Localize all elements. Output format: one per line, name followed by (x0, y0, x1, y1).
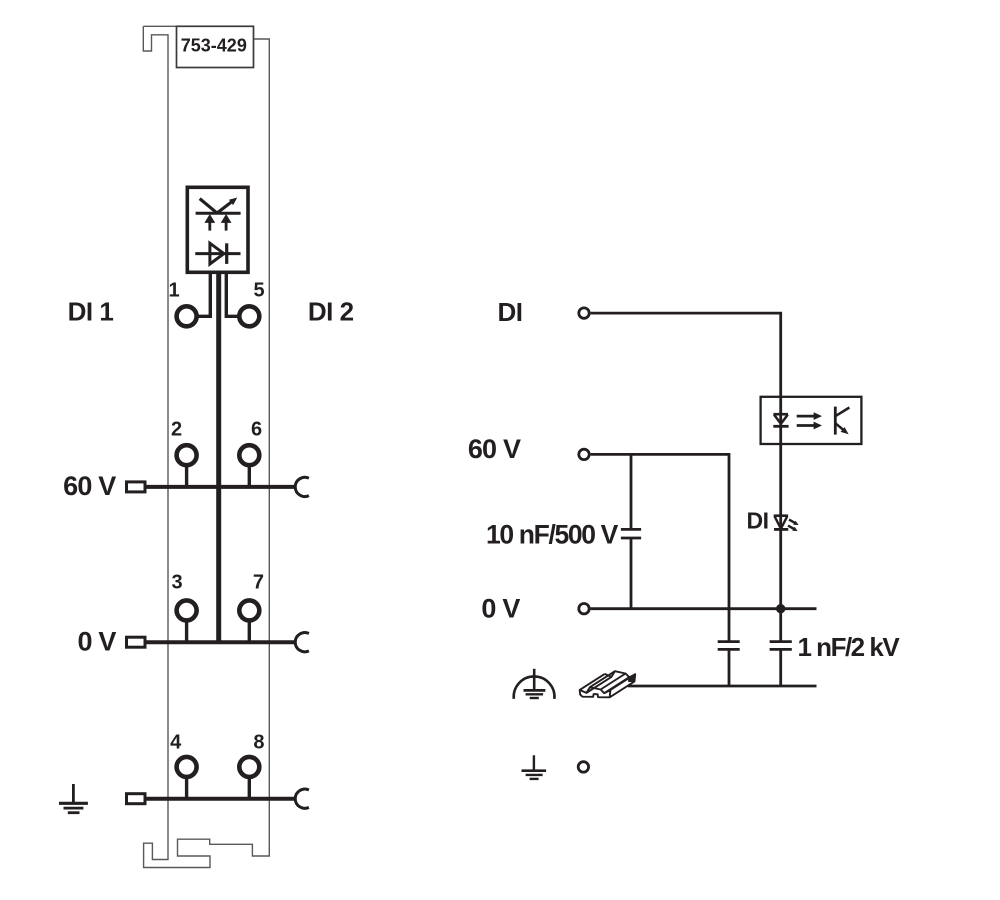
junction dot 0V/LED (776, 604, 785, 613)
optocoupler light arrows (797, 412, 822, 429)
node 0V terminal (579, 604, 589, 614)
wire terminal 8 stem (248, 776, 251, 799)
hook PE row (295, 789, 309, 808)
wire terminal 4 stem (185, 776, 188, 799)
status symbol up arrow 2 (221, 214, 232, 231)
terminal 3 (177, 600, 197, 620)
DIN rail symbol (580, 671, 636, 697)
wire box to terminal 5 (226, 272, 238, 316)
svg-text:60 V: 60 V (63, 471, 116, 501)
ground small right (522, 755, 547, 779)
hook 0V (295, 633, 309, 652)
svg-text:1 nF/2 kV: 1 nF/2 kV (798, 632, 901, 662)
svg-text:7: 7 (253, 572, 264, 594)
node unconnected terminal (578, 762, 588, 772)
ground left module (59, 784, 88, 813)
diode D1 (195, 243, 240, 264)
svg-text:8: 8 (253, 731, 264, 753)
optocoupler U2 (761, 397, 862, 444)
LED DI (774, 516, 789, 530)
svg-text:6: 6 (251, 419, 262, 441)
svg-text:DI 2: DI 2 (308, 297, 354, 327)
bus 60V (147, 485, 296, 489)
optocoupler phototransistor (835, 407, 849, 435)
svg-text:DI: DI (747, 508, 769, 534)
status symbol up arrow 1 (204, 214, 215, 231)
module outline (143, 26, 269, 867)
node 60V terminal (579, 449, 589, 459)
terminal 8 (239, 757, 259, 777)
svg-text:DI 1: DI 1 (68, 297, 114, 327)
hook 60V (295, 477, 309, 496)
svg-text:1: 1 (168, 280, 179, 302)
connector 0V (127, 637, 146, 647)
connector PE row (127, 794, 146, 804)
capacitor C3 (770, 642, 792, 650)
wire C3 to earth rail (779, 649, 782, 686)
LED DI light arrows (788, 520, 799, 531)
svg-text:10 nF/500 V: 10 nF/500 V (486, 519, 619, 549)
bus PE row (147, 797, 296, 801)
optocoupler LED (773, 414, 788, 426)
terminal 4 (177, 757, 197, 777)
terminal 1 (177, 306, 197, 326)
wire 60V branch to capacitor C1 (630, 454, 633, 529)
wire earth rail (628, 685, 817, 688)
wire center bus to 0V (216, 272, 221, 642)
capacitor C1 (621, 529, 641, 538)
bus 0V (147, 640, 296, 644)
terminal 6 (239, 445, 259, 465)
terminal 5 (239, 306, 259, 326)
svg-text:2: 2 (171, 419, 182, 441)
status indicator box U1 (187, 187, 248, 272)
svg-text:3: 3 (171, 572, 182, 594)
wire DI to optocoupler and LED branch (591, 313, 781, 641)
wire 60V to capacitor C2 (591, 454, 729, 641)
status symbol reflection line (196, 198, 241, 214)
svg-text:DI: DI (498, 297, 523, 327)
noiseless earth symbol (514, 669, 555, 699)
wire C1 to 0V (630, 538, 633, 609)
svg-text:753-429: 753-429 (181, 36, 247, 56)
node DI terminal (579, 308, 589, 318)
terminal 7 (239, 600, 259, 620)
connector 60V (127, 482, 146, 492)
wire C2 to earth rail (728, 649, 731, 686)
svg-text:60 V: 60 V (468, 434, 521, 464)
wire terminal 2 stem (185, 464, 188, 487)
svg-text:0 V: 0 V (78, 626, 117, 656)
wire terminal 7 stem (248, 619, 251, 642)
wire terminal 6 stem (248, 464, 251, 487)
svg-text:0 V: 0 V (481, 594, 520, 624)
wire box to terminal 1 (197, 272, 210, 316)
terminal 2 (177, 445, 197, 465)
svg-text:5: 5 (253, 280, 264, 302)
capacitor C2 (718, 642, 740, 650)
wire terminal 3 stem (185, 619, 188, 642)
label box 753-429 (177, 26, 254, 67)
wire 0V rail (591, 607, 817, 610)
svg-text:4: 4 (170, 731, 182, 753)
